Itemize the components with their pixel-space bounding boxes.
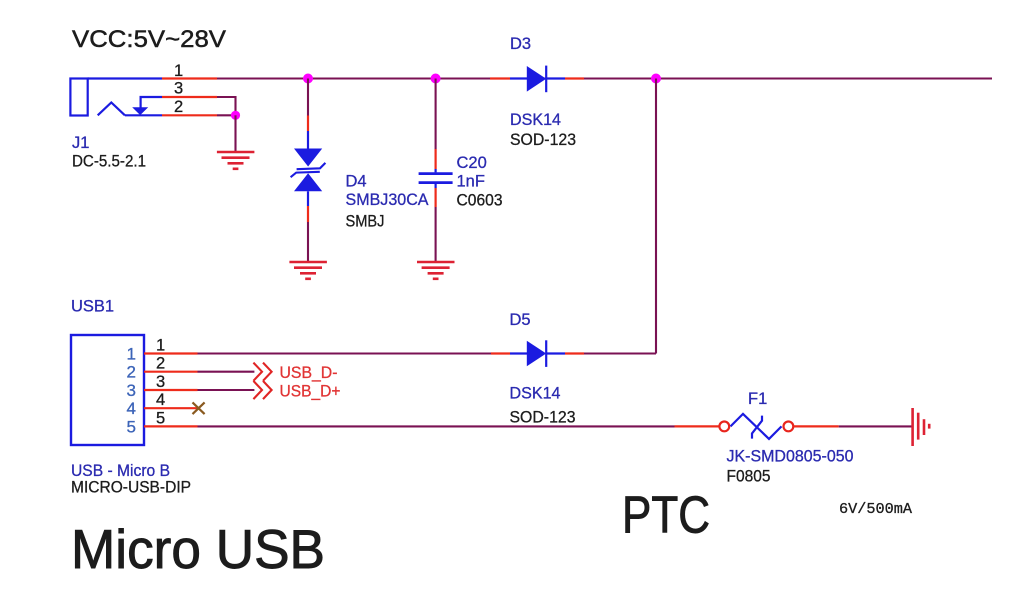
C20 bottom pin stub [435,188,437,207]
wire pin3 to pin2 junction [217,97,236,115]
wire C20 to ground [435,207,437,262]
C20 bottom lead [435,184,437,188]
capacitor C20 plate 1 [419,172,453,175]
USB1 pin 2 stub [144,371,198,373]
USB1 pin 5 stub [144,425,198,427]
D4 top pin stub [307,116,309,132]
net port chevrons USB_D+ [253,381,271,399]
diode D5 triangle [527,341,546,367]
wire VCC to C20 [435,79,437,150]
D4 bottom lead [307,191,309,206]
diode D3 cathode bar [545,66,547,93]
svg-text:F1: F1 [748,390,767,408]
svg-text:SOD-123: SOD-123 [510,409,576,427]
junction dot VCC at D5 branch [651,74,661,84]
capacitor C20 plate 2 [419,181,453,184]
D4 bottom pin stub [307,206,309,222]
net port chevrons USB_D- [253,363,271,381]
wire pin2 to port USB_D- [198,371,255,373]
J1 pin 3 stub [162,96,217,98]
svg-text:2: 2 [156,355,165,373]
svg-text:D3: D3 [510,35,531,53]
F1 right pin stub [794,425,839,427]
diode D3 triangle [527,66,546,92]
diode D5 cathode bar [545,340,547,367]
wire pin2 to ground [217,114,236,116]
svg-text:USB_D+: USB_D+ [280,382,341,400]
TVS diode D4 z-bar [291,163,326,177]
wire pin1 to D5 [198,352,492,354]
J1 pin 2 internal lead [125,114,162,116]
svg-text:C0603: C0603 [457,192,503,210]
wire VCC rail [217,77,992,79]
svg-text:VCC:5V~28V: VCC:5V~28V [72,26,227,53]
svg-text:USB1: USB1 [71,298,114,316]
svg-text:USB_D-: USB_D- [280,364,338,382]
J1 arrow contact [132,107,148,115]
svg-text:4: 4 [127,399,136,418]
wire pin3 to port USB_D+ [198,389,255,391]
TVS diode D4 upper triangle [294,149,322,167]
svg-text:DC-5.5-2.1: DC-5.5-2.1 [72,153,146,171]
svg-text:Micro USB: Micro USB [71,519,325,580]
svg-text:5: 5 [156,409,165,427]
D5 right pin stub [565,352,584,354]
wire F1 to earth [839,425,912,427]
svg-text:1nF: 1nF [457,173,485,191]
D5 right lead [546,352,565,354]
TVS diode D4 lower triangle [294,173,322,191]
svg-text:DSK14: DSK14 [510,385,561,403]
svg-text:SMBJ30CA: SMBJ30CA [346,191,429,209]
svg-text:D4: D4 [346,173,367,191]
D3 left pin stub [490,77,510,79]
ground under J1 [217,152,255,169]
wire D5 to VCC branch [584,352,656,354]
USB1 pin 3 stub [144,389,198,391]
junction dot VCC at C20 [431,74,441,84]
svg-text:DSK14: DSK14 [510,111,561,129]
D5 left lead [510,352,527,354]
svg-text:1: 1 [174,62,183,80]
svg-text:F0805: F0805 [727,468,771,486]
J1 pin 3 internal lead [141,97,162,108]
fuse F1 slash [752,416,762,439]
svg-text:D5: D5 [510,311,531,329]
wire VCC to D4 [307,79,309,116]
J1 chevron contact [98,103,125,116]
no-connect X on pin 4 [193,402,205,414]
svg-text:1: 1 [156,337,165,355]
svg-text:2: 2 [127,363,136,382]
connector J1 body [70,79,87,116]
D3 right lead [546,77,565,79]
J1 pin 1 stub [162,77,217,79]
svg-text:J1: J1 [72,134,89,152]
svg-text:PTC: PTC [622,487,710,545]
junction dot at J1 pin2 [231,111,240,120]
svg-text:JK-SMD0805-050: JK-SMD0805-050 [727,448,854,466]
svg-text:SOD-123: SOD-123 [510,131,576,149]
J1 pin 2 stub [162,114,217,116]
USB1 pin 4 stub [144,407,199,409]
connector USB1 body [71,335,144,445]
wire D4 to ground [307,222,309,262]
fuse F1 element [731,414,782,439]
D3 right pin stub [565,77,584,79]
svg-text:SMBJ: SMBJ [346,213,385,231]
C20 top pin stub [435,149,437,169]
F1 left pin stub [675,425,720,427]
earth ground right [913,408,930,446]
svg-text:C20: C20 [457,154,487,172]
ground under C20 [417,262,455,279]
fuse F1 left terminal circle [719,422,729,432]
D4 top lead [307,131,309,149]
USB1 pin 1 stub [144,352,198,354]
D3 left lead [510,77,527,79]
svg-text:3: 3 [127,381,136,400]
wire down to GND under J1 [234,115,236,152]
junction dot VCC at D4 [303,74,313,84]
ground under D4 [289,262,327,279]
J1 pin 1 internal lead [88,77,162,79]
svg-text:5: 5 [127,417,136,436]
svg-text:1: 1 [127,345,136,364]
wire pin5 to fuse F1 [198,425,675,427]
svg-text:4: 4 [156,391,165,409]
svg-text:2: 2 [174,98,183,116]
fuse F1 right terminal circle [784,422,794,432]
svg-text:6V/500mA: 6V/500mA [839,501,912,518]
wire VCC down to D5 [655,79,657,354]
D5 left pin stub [491,352,510,354]
svg-text:3: 3 [156,373,165,391]
svg-text:MICRO-USB-DIP: MICRO-USB-DIP [71,479,191,497]
svg-text:3: 3 [174,80,183,98]
C20 top lead [435,169,437,172]
svg-text:USB - Micro B: USB - Micro B [71,462,170,480]
